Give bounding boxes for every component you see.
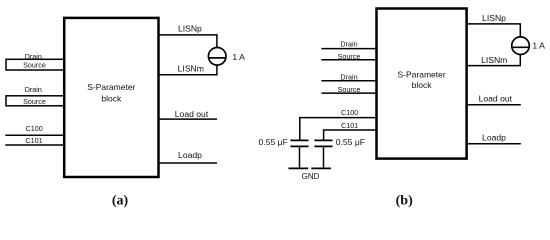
svg-text:LISNp: LISNp	[482, 13, 506, 23]
wire Source 1 (b)	[321, 59, 376, 61]
svg-text:Load out: Load out	[175, 109, 209, 119]
svg-text:block: block	[412, 80, 433, 90]
svg-text:block: block	[101, 93, 122, 103]
svg-text:Source: Source	[23, 97, 46, 106]
svg-text:C101: C101	[341, 121, 358, 130]
ground bar right	[311, 167, 331, 169]
svg-text:LISNp: LISNp	[178, 24, 202, 34]
wire LISNp (a)	[159, 35, 217, 48]
svg-text:C100: C100	[26, 124, 43, 133]
svg-text:S-Parameter: S-Parameter	[87, 82, 135, 92]
svg-text:0.55 μF: 0.55 μF	[336, 137, 365, 147]
wire Drain 2 (b)	[321, 80, 376, 82]
S-Parameter block (a)	[64, 18, 158, 177]
wire Source 2 (b)	[321, 92, 376, 94]
svg-text:(a): (a)	[112, 193, 129, 208]
svg-text:Load out: Load out	[479, 93, 513, 103]
wire Drain 1 (b)	[321, 48, 376, 50]
svg-text:1 A: 1 A	[232, 52, 245, 62]
svg-text:Loadp: Loadp	[482, 132, 506, 142]
svg-text:Source: Source	[23, 61, 46, 70]
wire Load out (a)	[159, 118, 218, 120]
capacitor C100 0.55uF	[290, 140, 308, 168]
svg-text:GND: GND	[302, 172, 320, 181]
svg-text:LISNm: LISNm	[178, 64, 204, 74]
svg-text:C101: C101	[25, 136, 42, 145]
svg-text:Drain: Drain	[25, 85, 42, 94]
wire Load out (b)	[467, 104, 521, 106]
wire C101 (b)	[324, 130, 377, 140]
S-Parameter block (b)	[377, 9, 467, 159]
svg-text:Drain: Drain	[340, 39, 357, 48]
svg-text:Loadp: Loadp	[178, 150, 202, 160]
wire LISNm (b)	[467, 55, 521, 66]
current source I1 (b)	[512, 37, 530, 55]
svg-text:C100: C100	[341, 108, 358, 117]
ground bar left	[289, 167, 309, 169]
wire Loadp (a)	[159, 162, 218, 164]
port box Source 2 (a)	[6, 96, 64, 106]
svg-text:(b): (b)	[396, 193, 413, 208]
wire C100 (b)	[300, 118, 377, 140]
svg-text:LISNm: LISNm	[481, 55, 507, 65]
port box Source 1 (a)	[6, 59, 64, 70]
svg-text:1 A: 1 A	[532, 41, 545, 51]
wire C101 (a)	[5, 144, 64, 146]
wire C100 (a)	[5, 134, 64, 136]
wire Loadp (b)	[467, 143, 521, 145]
svg-text:S-Parameter: S-Parameter	[398, 69, 446, 79]
capacitor C101 0.55uF	[314, 140, 332, 168]
svg-text:0.55 μF: 0.55 μF	[259, 137, 288, 147]
current source I1 (a)	[208, 48, 226, 66]
wire LISNm (a)	[159, 65, 217, 75]
wire LISNp (b)	[467, 24, 521, 37]
